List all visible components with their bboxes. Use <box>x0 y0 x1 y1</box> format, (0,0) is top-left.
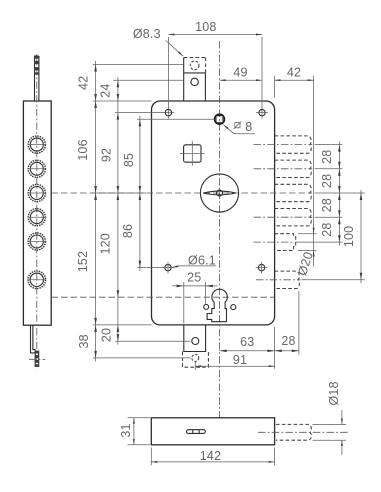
dimension 28 b <box>320 174 334 188</box>
right 28 chain <box>296 142 342 246</box>
deadbolt 2 (hidden) <box>275 160 312 177</box>
faceplate bolt hole 4 <box>28 209 47 226</box>
deadbolt 1 (hidden) <box>275 136 312 153</box>
follower square <box>180 141 205 166</box>
svg-text:49: 49 <box>233 66 247 80</box>
svg-text:Ø20: Ø20 <box>295 250 315 277</box>
svg-text:63: 63 <box>240 335 254 349</box>
top control rod <box>34 55 39 101</box>
extension line nut <box>137 118 214 120</box>
dimension 28 a <box>320 150 334 164</box>
svg-text:31: 31 <box>119 423 133 437</box>
svg-text:28: 28 <box>320 222 334 236</box>
screw hole bottom-left (6.1) <box>162 262 174 274</box>
svg-text:25: 25 <box>187 270 201 284</box>
bottom tab hidden extension <box>183 352 209 368</box>
deadbolt 1 centerline <box>254 144 313 146</box>
svg-text:92: 92 <box>100 148 114 162</box>
auxiliary latch centerline <box>254 241 296 243</box>
label diameter 20 <box>295 225 316 277</box>
screw hole top-right <box>256 107 268 119</box>
extension line bottom tab hole <box>115 340 191 342</box>
profile bolt centerline <box>258 431 348 433</box>
deadbolt 2 centerline <box>254 168 313 170</box>
faceplate strip (side view) <box>23 101 51 325</box>
screw hole top-left <box>163 107 175 119</box>
dimension 86 <box>121 224 135 238</box>
dimension 92 <box>100 148 114 162</box>
svg-text:120: 120 <box>99 233 113 254</box>
dimension 91 <box>195 353 274 370</box>
deadbolt 4 centerline <box>254 216 313 218</box>
svg-text:28: 28 <box>320 150 334 164</box>
dimension 38 <box>77 334 91 348</box>
dimension 106 <box>76 139 90 160</box>
dimension 42 left <box>77 76 91 90</box>
extension line body bottom <box>93 324 152 326</box>
label diameter 8.3 <box>133 27 183 56</box>
deadbolt 3 (hidden) <box>275 184 312 201</box>
dimension 152 <box>76 251 90 272</box>
profile slot detail <box>187 430 206 434</box>
svg-text:86: 86 <box>121 224 135 238</box>
top tab hidden hole <box>190 61 199 70</box>
dimension 49 <box>220 66 263 81</box>
svg-text:42: 42 <box>287 66 301 80</box>
dimension 25 <box>172 270 218 323</box>
faceplate bolt hole 6 <box>28 271 47 289</box>
dimension 31 <box>119 418 150 445</box>
faceplate centerline <box>36 54 38 370</box>
svg-text:28: 28 <box>320 174 334 188</box>
dimension 63 <box>220 335 275 352</box>
bottom control rod with hook <box>29 325 45 367</box>
dimension 108 <box>168 20 262 108</box>
bottom profile view body <box>151 418 274 445</box>
svg-text:142: 142 <box>200 449 221 463</box>
euro cylinder keyhole <box>204 289 236 321</box>
lower deadbolt (hidden) <box>275 271 300 288</box>
svg-text:Ø6.1: Ø6.1 <box>188 254 216 268</box>
svg-text:100: 100 <box>342 226 356 247</box>
screw hole bottom-right <box>256 262 268 274</box>
dimension 100 <box>302 190 365 283</box>
extension line tab hole <box>113 79 183 81</box>
svg-text:91: 91 <box>233 353 247 367</box>
top mounting tab <box>184 58 206 102</box>
dimension diameter 18 <box>313 381 347 455</box>
extension line screw holes <box>115 112 165 114</box>
dimension 24 <box>99 83 113 97</box>
svg-text:106: 106 <box>76 139 90 160</box>
faceplate bolt hole 3 <box>28 184 47 201</box>
svg-text:Ø18: Ø18 <box>327 381 341 405</box>
dimension 28 d <box>320 222 334 236</box>
auxiliary latch bolt (hidden) <box>274 234 295 251</box>
label square 8 <box>223 120 255 134</box>
svg-text:20: 20 <box>100 328 114 342</box>
svg-text:28: 28 <box>281 334 295 348</box>
cam blade <box>203 190 236 196</box>
square spindle nut <box>214 114 224 124</box>
main horizontal axis <box>52 192 313 194</box>
faceplate bolt hole 1 <box>28 136 47 153</box>
profile bolt (hidden) <box>276 424 312 440</box>
dimension 142 <box>151 448 274 466</box>
svg-text:28: 28 <box>320 198 334 212</box>
svg-text:42: 42 <box>77 76 91 90</box>
svg-text:152: 152 <box>76 251 90 272</box>
dimension 28 bottom <box>275 291 299 369</box>
faceplate bolt hole 2 <box>28 160 47 177</box>
bottom mounting tab <box>184 325 206 352</box>
keyhole axis <box>52 296 275 298</box>
cylinder cam circle <box>200 174 238 212</box>
lock body <box>152 101 275 325</box>
svg-text:8: 8 <box>245 120 252 134</box>
label diameter 6.1 <box>172 254 216 268</box>
deadbolt 4 (hidden) <box>275 209 312 226</box>
top tab hole <box>191 78 198 85</box>
faceplate bolt hole 5 <box>28 233 47 250</box>
dimension 20 <box>100 328 114 342</box>
extension line hole 6.1 <box>137 267 164 269</box>
dimension 42 bolt throw <box>275 66 314 267</box>
vertical center axis <box>219 41 221 417</box>
svg-text:85: 85 <box>122 153 136 167</box>
left chain arrows <box>94 65 141 358</box>
svg-text:38: 38 <box>77 334 91 348</box>
svg-text:24: 24 <box>99 83 113 97</box>
lower deadbolt centerline <box>256 279 301 281</box>
svg-text:Ø8.3: Ø8.3 <box>133 27 161 41</box>
extension line bottom hidden hole <box>93 357 191 359</box>
left dimension chain lines <box>96 61 140 361</box>
dimension 85 <box>122 153 136 167</box>
dimension 28 c <box>320 198 334 212</box>
extension line body top <box>93 100 152 102</box>
dimension 120 <box>99 233 113 254</box>
extension line tab hidden hole <box>93 64 183 66</box>
svg-text:108: 108 <box>195 20 216 34</box>
